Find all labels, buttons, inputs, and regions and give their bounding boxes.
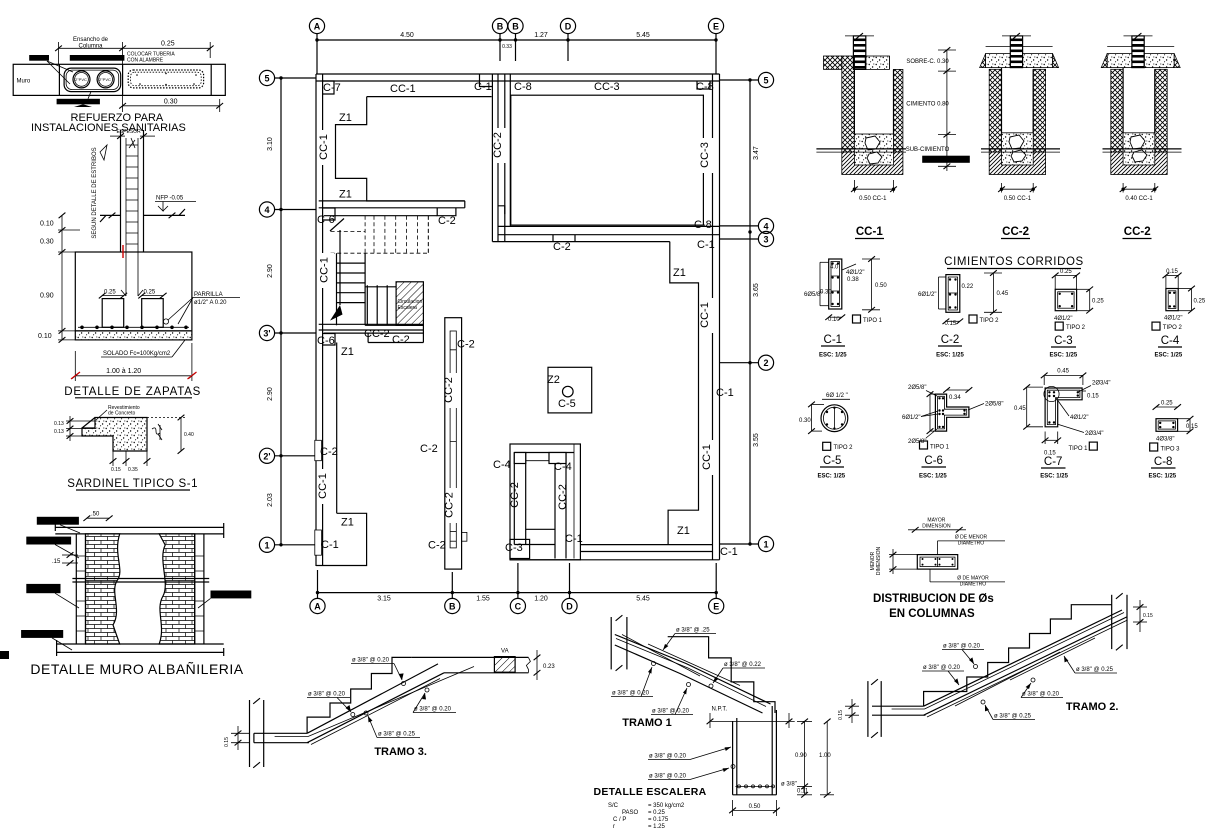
column section C-5 (circular) xyxy=(799,393,853,480)
0.25 dims xyxy=(102,295,124,297)
svg-text:TRAMO 3.: TRAMO 3. xyxy=(374,746,427,758)
svg-text:CON ALAMBRE: CON ALAMBRE xyxy=(127,58,164,64)
svg-text:0.10: 0.10 xyxy=(828,317,840,323)
svg-text:4Ø1/2": 4Ø1/2" xyxy=(1164,315,1182,321)
svg-text:S/C: S/C xyxy=(608,803,619,809)
svg-text:1: 1 xyxy=(264,540,269,550)
left dim 0.15 xyxy=(851,699,853,723)
svg-text:C-6: C-6 xyxy=(317,214,335,226)
slab band descending right xyxy=(615,635,771,705)
svg-text:2.90: 2.90 xyxy=(267,387,274,401)
svg-text:ESC: 1/25: ESC: 1/25 xyxy=(1040,473,1068,479)
detail: muro albanileria xyxy=(21,511,251,677)
svg-text:C-2: C-2 xyxy=(420,443,438,455)
svg-text:Z1: Z1 xyxy=(677,525,690,537)
svg-text:0.45: 0.45 xyxy=(1014,406,1026,412)
svg-text:1.00: 1.00 xyxy=(819,753,831,759)
section middle dim labels xyxy=(906,47,970,171)
svg-text:2.90: 2.90 xyxy=(267,264,274,278)
column rebar extensions into footing xyxy=(121,252,143,296)
svg-text:0.40 CC-1: 0.40 CC-1 xyxy=(1125,196,1153,202)
svg-text:0.25: 0.25 xyxy=(161,41,175,48)
svg-text:C-8: C-8 xyxy=(696,81,714,93)
floor lines xyxy=(100,209,185,222)
svg-text:ø 3/8" @ 0.25: ø 3/8" @ 0.25 xyxy=(1076,667,1114,673)
zapata Z1 bottom-left xyxy=(316,513,367,565)
svg-text:0.50: 0.50 xyxy=(875,283,887,289)
svg-text:CIMIENTO 0.80: CIMIENTO 0.80 xyxy=(906,101,949,107)
svg-text:ø 3/8": ø 3/8" xyxy=(781,782,797,788)
red mark at column base xyxy=(122,245,124,258)
section CC-1 (foundation trench, left) xyxy=(816,33,906,238)
steps xyxy=(668,637,775,713)
svg-text:0.23: 0.23 xyxy=(543,664,555,670)
svg-text:4Ø1/2": 4Ø1/2" xyxy=(846,270,864,276)
svg-text:0.13: 0.13 xyxy=(54,421,64,427)
svg-text:CC-2: CC-2 xyxy=(1124,226,1151,238)
left support xyxy=(610,617,612,669)
top right vertical member xyxy=(1111,595,1113,649)
dims xyxy=(87,517,109,519)
svg-text:= 1.25: = 1.25 xyxy=(648,824,666,830)
svg-text:1.00 à 1.20: 1.00 à 1.20 xyxy=(106,368,141,375)
right dim 0.23 xyxy=(536,650,538,680)
svg-text:.15: .15 xyxy=(52,559,61,565)
svg-text:TIPO 3: TIPO 3 xyxy=(1161,446,1181,452)
right squiggle + dim xyxy=(152,428,160,434)
left dim 0.15 xyxy=(237,726,239,750)
svg-text:0.30: 0.30 xyxy=(40,239,54,246)
svg-text:ESC: 1/25: ESC: 1/25 xyxy=(936,353,964,359)
zapata Z2 with column C-5 xyxy=(548,367,592,413)
svg-text:Escalera: Escalera xyxy=(398,305,418,311)
svg-text:5.45: 5.45 xyxy=(636,596,650,603)
svg-text:0.15: 0.15 xyxy=(1143,613,1153,619)
svg-text:2Ø5/8": 2Ø5/8" xyxy=(908,439,926,445)
svg-text:0.90: 0.90 xyxy=(795,753,807,759)
column C-6 at row 4 left xyxy=(323,208,335,220)
stairs: upper flight dashed treads xyxy=(331,216,429,254)
svg-text:ø 3/8" @ 0.20: ø 3/8" @ 0.20 xyxy=(1022,692,1060,698)
svg-text:Z1: Z1 xyxy=(341,346,354,358)
svg-text:C-5: C-5 xyxy=(823,455,842,467)
stair flight left boundary line xyxy=(336,253,338,325)
svg-text:C-3: C-3 xyxy=(1054,335,1073,347)
svg-text:3.55: 3.55 xyxy=(753,433,760,447)
svg-text:6Ø1/2": 6Ø1/2" xyxy=(902,415,920,421)
stray label mark at sheet edge xyxy=(0,651,9,659)
wall: plan outer right E xyxy=(713,74,720,560)
svg-text:0.22: 0.22 xyxy=(962,284,974,290)
right thin wall xyxy=(194,534,196,644)
svg-text:= 350 kg/cm2: = 350 kg/cm2 xyxy=(648,803,685,809)
rebar dots xyxy=(80,326,188,330)
svg-text:CC-2: CC-2 xyxy=(364,328,390,340)
svg-text:4.0: 4.0 xyxy=(830,265,839,271)
svg-text:0.45: 0.45 xyxy=(997,291,1009,297)
svg-text:C-5: C-5 xyxy=(558,398,576,410)
svg-text:0.50 CC-1: 0.50 CC-1 xyxy=(859,196,887,202)
detail: sardinel tipico S-1 xyxy=(54,405,198,490)
svg-text:3.15: 3.15 xyxy=(377,596,391,603)
svg-text:de Concreto: de Concreto xyxy=(108,411,135,417)
svg-text:C / P: C / P xyxy=(613,817,626,823)
svg-text:CC-2: CC-2 xyxy=(1002,226,1029,238)
svg-text:0.15: 0.15 xyxy=(945,321,957,327)
svg-text:TIPO 2: TIPO 2 xyxy=(834,445,854,451)
svg-text:0.25: 0.25 xyxy=(1161,401,1173,407)
svg-text:0.11: 0.11 xyxy=(797,789,809,795)
stair detail TRAMO 3 xyxy=(224,649,555,768)
svg-text:TRAMO 1: TRAMO 1 xyxy=(622,717,672,729)
svg-text:TIPO 1: TIPO 1 xyxy=(863,318,883,324)
svg-text:0.15: 0.15 xyxy=(111,467,121,473)
svg-text:0.25: 0.25 xyxy=(104,290,116,296)
left support xyxy=(867,681,869,737)
svg-text:C-8: C-8 xyxy=(694,219,712,231)
svg-text:C-2: C-2 xyxy=(320,446,338,458)
svg-text:A: A xyxy=(314,602,321,612)
svg-text:C-4: C-4 xyxy=(1161,335,1180,347)
plan: right grid bubbles 5 4 3 2 1 with dims xyxy=(720,72,774,551)
mayor dimension dim xyxy=(915,529,959,531)
svg-text:SOLADO Fc=100Kg/cm2: SOLADO Fc=100Kg/cm2 xyxy=(103,351,171,357)
svg-text:DIMENSION: DIMENSION xyxy=(876,546,882,575)
svg-text:0.15: 0.15 xyxy=(1166,269,1178,275)
wall: row 4'/3 band under room2 xyxy=(492,206,719,242)
svg-text:VA: VA xyxy=(501,649,509,655)
svg-text:1.55: 1.55 xyxy=(476,596,490,603)
svg-text:ø 3/8" @ 0.22: ø 3/8" @ 0.22 xyxy=(724,662,762,668)
svg-text:C-1: C-1 xyxy=(716,387,734,399)
svg-text:5: 5 xyxy=(264,74,269,84)
svg-text:.50: .50 xyxy=(91,511,100,517)
svg-text:2Ø3/4": 2Ø3/4" xyxy=(1092,380,1110,386)
redacted black labels xyxy=(37,517,79,525)
svg-text:2Ø5/8": 2Ø5/8" xyxy=(985,401,1003,407)
svg-text:ø1/2" A 0.20: ø1/2" A 0.20 xyxy=(194,300,227,306)
svg-text:0.25: 0.25 xyxy=(1060,269,1072,275)
svg-text:3.10: 3.10 xyxy=(267,137,274,151)
svg-text:Z1: Z1 xyxy=(341,517,354,529)
svg-text:r: r xyxy=(613,824,615,830)
svg-text:C-2: C-2 xyxy=(392,334,410,346)
svg-text:CC-1: CC-1 xyxy=(701,444,713,470)
plan: top dimension chain 4.50 / 0.33 / 1.27 / 5.45 xyxy=(315,32,717,74)
svg-text:0.50 CC-1: 0.50 CC-1 xyxy=(1004,196,1032,202)
svg-text:0.25: 0.25 xyxy=(1092,299,1104,305)
plan labels xyxy=(317,81,738,558)
svg-text:0.40: 0.40 xyxy=(184,432,194,438)
svg-text:ø 3/8" @ 0.20: ø 3/8" @ 0.20 xyxy=(308,692,346,698)
column verticals xyxy=(120,130,122,252)
svg-text:2: 2 xyxy=(763,358,768,368)
svg-text:C-8: C-8 xyxy=(514,81,532,93)
svg-text:DETALLE DE ZAPATAS: DETALLE DE ZAPATAS xyxy=(64,386,201,398)
svg-text:1.27: 1.27 xyxy=(534,32,548,39)
wall: row 3' band xyxy=(319,324,424,342)
svg-text:C-1: C-1 xyxy=(824,334,843,346)
svg-text:ø 3/8" @ 0.25: ø 3/8" @ 0.25 xyxy=(994,714,1032,720)
svg-text:C-3: C-3 xyxy=(505,542,523,554)
svg-text:C-6: C-6 xyxy=(924,455,943,467)
svg-text:CC-2: CC-2 xyxy=(492,132,504,158)
wall: plan outer left A xyxy=(316,74,323,566)
svg-text:Z2: Z2 xyxy=(547,374,560,386)
diametro labels xyxy=(937,541,939,555)
svg-text:C-2: C-2 xyxy=(553,241,571,253)
left dim chain xyxy=(61,215,63,340)
svg-text:CC-1: CC-1 xyxy=(856,226,883,238)
svg-text:C-1: C-1 xyxy=(697,239,715,251)
svg-text:DIMENSION: DIMENSION xyxy=(922,523,951,529)
svg-text:N.P.T.: N.P.T. xyxy=(712,707,728,713)
svg-text:0.10: 0.10 xyxy=(38,333,52,340)
column section C-2 xyxy=(918,270,1009,358)
svg-text:ESC: 1/25: ESC: 1/25 xyxy=(817,474,845,480)
svg-text:2': 2' xyxy=(263,451,270,461)
svg-text:2.03: 2.03 xyxy=(267,493,274,507)
top cap xyxy=(55,526,223,528)
column section C-7 (L shape) xyxy=(1014,369,1110,480)
svg-text:E: E xyxy=(713,22,719,32)
svg-text:DIAMETRO: DIAMETRO xyxy=(960,582,987,588)
svg-text:TRAMO 2.: TRAMO 2. xyxy=(1066,701,1119,713)
svg-text:0.15: 0.15 xyxy=(224,737,230,747)
stair detail TRAMO 1 / DETALLE ESCALERA xyxy=(593,615,834,830)
wall: plan outer top xyxy=(316,74,720,81)
room1 footing inner edge with Z1 steps xyxy=(336,97,492,201)
svg-text:ESC: 1/25: ESC: 1/25 xyxy=(1148,473,1176,479)
section CC-2 (middle) xyxy=(980,33,1060,238)
column section C-4 xyxy=(1152,269,1206,359)
column C-7 corner top-left xyxy=(323,81,334,94)
wall: row 4 band (stair top) xyxy=(319,201,465,216)
svg-text:E: E xyxy=(713,602,719,612)
brick columns with wavy free edges xyxy=(86,534,120,644)
svg-text:CC-3: CC-3 xyxy=(699,142,711,168)
svg-text:CC-2: CC-2 xyxy=(509,482,521,508)
svg-text:0.45: 0.45 xyxy=(1057,369,1069,375)
strip footing at axis B (CC-2) xyxy=(445,318,467,569)
wall: B / B' double wall xyxy=(492,74,510,242)
svg-text:NFP -0.05: NFP -0.05 xyxy=(156,196,184,202)
svg-text:0.30: 0.30 xyxy=(164,98,178,105)
svg-text:C-1: C-1 xyxy=(720,546,738,558)
svg-text:0.30: 0.30 xyxy=(820,290,832,296)
svg-text:C-8: C-8 xyxy=(1154,456,1173,468)
right dims 0.90 / 1.00 xyxy=(804,721,806,794)
incline band xyxy=(307,673,444,743)
stirrups xyxy=(126,145,138,244)
svg-text:6Ø1/2": 6Ø1/2" xyxy=(918,292,936,298)
svg-text:0.15: 0.15 xyxy=(838,710,844,720)
svg-text:ESC: 1/25: ESC: 1/25 xyxy=(1050,353,1078,359)
svg-text:TIPO 2: TIPO 2 xyxy=(1163,325,1183,331)
left dims xyxy=(66,420,96,422)
svg-text:C-1: C-1 xyxy=(474,81,492,93)
detail: distribucion de As en columnas xyxy=(870,518,1005,621)
svg-text:6Ø 1/2 ": 6Ø 1/2 " xyxy=(826,393,848,399)
svg-text:C-4: C-4 xyxy=(554,461,572,473)
svg-text:0.33: 0.33 xyxy=(502,44,512,50)
right dim 0.15 xyxy=(1139,600,1141,632)
svg-text:CC-1: CC-1 xyxy=(390,83,416,95)
svg-text:= 0.175: = 0.175 xyxy=(648,817,669,823)
column C-1 top at B xyxy=(480,74,493,87)
svg-text:C-4: C-4 xyxy=(493,459,511,471)
detail: refuerzo para instalaciones sanitarias (beam plan) xyxy=(13,37,225,134)
redacted labels (black bars) with leaders xyxy=(29,55,49,61)
plan: bottom grid bubbles A B C D E with dims 3.15 1.55 1.20 5.45 xyxy=(310,563,724,614)
svg-text:ø 3/8" @ 0.20: ø 3/8" @ 0.20 xyxy=(352,658,390,664)
svg-text:Z1: Z1 xyxy=(339,189,352,201)
svg-text:4Ø1/2": 4Ø1/2" xyxy=(1054,316,1072,322)
svg-text:ESC: 1/25: ESC: 1/25 xyxy=(819,353,847,359)
stair detail TRAMO 2 xyxy=(838,593,1153,738)
svg-text:2"PVC: 2"PVC xyxy=(75,77,87,82)
svg-text:0.50: 0.50 xyxy=(749,804,761,810)
svg-text:3': 3' xyxy=(263,329,270,339)
svg-text:ø 3/8" @ 0.25: ø 3/8" @ 0.25 xyxy=(378,732,416,738)
svg-text:C: C xyxy=(515,602,522,612)
svg-text:CIMIENTOS CORRIDOS: CIMIENTOS CORRIDOS xyxy=(944,256,1084,268)
svg-text:0.13: 0.13 xyxy=(54,429,64,435)
svg-text:2Ø5/8": 2Ø5/8" xyxy=(908,385,926,391)
section CC-2 (right) xyxy=(1101,33,1181,238)
svg-text:C-1: C-1 xyxy=(321,539,339,551)
bottom slab xyxy=(254,732,307,734)
svg-text:0.30: 0.30 xyxy=(799,418,811,424)
svg-text:Muro: Muro xyxy=(17,79,31,85)
svg-text:ø 3/8" @ 0.20: ø 3/8" @ 0.20 xyxy=(923,665,961,671)
svg-text:C-2: C-2 xyxy=(428,540,446,552)
svg-text:SEGUN DETALLE DE ESTRIBOS: SEGUN DETALLE DE ESTRIBOS xyxy=(92,147,98,238)
plan: left grid bubbles 5 4 3' 2' 1 with dims xyxy=(259,70,316,552)
svg-text:C-7: C-7 xyxy=(1044,456,1063,468)
svg-text:Ensancho de: Ensancho de xyxy=(73,37,109,43)
svg-text:Z1: Z1 xyxy=(339,112,352,124)
steps xyxy=(307,657,412,733)
svg-text:ø 3/8" @ .25: ø 3/8" @ .25 xyxy=(676,628,710,634)
svg-text:C-7: C-7 xyxy=(323,82,341,94)
svg-text:1: 1 xyxy=(763,540,768,550)
plan: grid bubbles top row A B B D E xyxy=(309,18,723,33)
svg-text:4: 4 xyxy=(264,205,269,215)
svg-text:1.20: 1.20 xyxy=(534,596,548,603)
svg-text:EN COLUMNAS: EN COLUMNAS xyxy=(889,608,975,620)
elevator box footing C-D rows 1-2 xyxy=(510,444,580,560)
landing xyxy=(412,656,529,658)
svg-text:ø 3/8" @ 0.20: ø 3/8" @ 0.20 xyxy=(652,709,690,715)
VA box xyxy=(494,657,515,673)
left thin wall xyxy=(75,534,77,644)
svg-text:0.15: 0.15 xyxy=(1087,393,1099,399)
svg-text:3.65: 3.65 xyxy=(753,283,760,297)
column C-6 at row 3' left xyxy=(323,334,335,346)
svg-text:TIPO 2: TIPO 2 xyxy=(1066,325,1086,331)
bottom cap xyxy=(57,643,224,645)
svg-text:4.50: 4.50 xyxy=(400,32,414,39)
svg-text:5.45: 5.45 xyxy=(636,32,650,39)
svg-text:ø 3/8" @ 0.20: ø 3/8" @ 0.20 xyxy=(414,707,452,713)
svg-text:C-1: C-1 xyxy=(565,533,583,545)
svg-text:ESC: 1/25: ESC: 1/25 xyxy=(919,474,947,480)
svg-text:0.34: 0.34 xyxy=(949,395,961,401)
svg-text:4Ø1/2": 4Ø1/2" xyxy=(1070,415,1088,421)
svg-text:SUB-CIMIENTO: SUB-CIMIENTO xyxy=(906,147,950,153)
svg-text:CC-2: CC-2 xyxy=(444,492,456,518)
svg-text:3.47: 3.47 xyxy=(753,146,760,160)
svg-text:2Ø3/4": 2Ø3/4" xyxy=(1085,431,1103,437)
column C-8 notch top right xyxy=(697,81,710,89)
svg-text:0.25: 0.25 xyxy=(1194,299,1206,305)
svg-text:ESC: 1/25: ESC: 1/25 xyxy=(1155,353,1183,359)
stairs: direction arrow xyxy=(330,219,344,321)
detail: detalle de zapatas (footing section) xyxy=(38,213,240,398)
svg-text:CC-1: CC-1 xyxy=(699,302,711,328)
left support xyxy=(249,700,251,767)
stairs: lower flight solid treads xyxy=(337,253,424,325)
svg-text:0.35: 0.35 xyxy=(128,467,138,473)
svg-text:D: D xyxy=(565,22,572,32)
svg-text:CC-1: CC-1 xyxy=(318,134,330,160)
title: CIMIENTOS CORRIDOS xyxy=(944,256,1084,269)
svg-text:C-6: C-6 xyxy=(317,335,335,347)
widened column with 2 PVC pipes xyxy=(64,68,121,92)
svg-text:2"PVC: 2"PVC xyxy=(99,77,111,82)
svg-text:0.90: 0.90 xyxy=(40,293,54,300)
room2 footing inner edge xyxy=(511,95,704,225)
column section C-3 xyxy=(1050,269,1105,359)
svg-text:C-2: C-2 xyxy=(457,339,475,351)
svg-text:Z1: Z1 xyxy=(673,267,686,279)
svg-text:C-2: C-2 xyxy=(438,215,456,227)
svg-text:D: D xyxy=(566,602,573,612)
footing inner edge right side with Z1 steps xyxy=(668,242,698,545)
label white backers xyxy=(320,128,717,523)
svg-text:SOBRE-C. 0.30: SOBRE-C. 0.30 xyxy=(906,59,949,65)
svg-text:B: B xyxy=(497,22,504,32)
svg-text:5: 5 xyxy=(763,76,768,86)
detail: column elevation above zapata xyxy=(92,129,196,252)
bottom dim 0.50 xyxy=(732,800,734,816)
svg-text:CC-2: CC-2 xyxy=(443,377,455,403)
svg-text:TIPO 1: TIPO 1 xyxy=(1069,446,1089,452)
bottom slab xyxy=(872,705,924,707)
svg-text:SARDINEL TIPICO S-1: SARDINEL TIPICO S-1 xyxy=(67,478,198,490)
svg-text:C-2: C-2 xyxy=(941,334,960,346)
svg-text:CC-1: CC-1 xyxy=(319,257,331,283)
wall: bottom band row 1 xyxy=(510,545,720,560)
svg-text:PASO: PASO xyxy=(622,810,639,816)
svg-text:0.10: 0.10 xyxy=(40,221,54,228)
footing wall xyxy=(732,721,734,794)
svg-text:B: B xyxy=(512,22,519,32)
svg-text:DETALLE ESCALERA: DETALLE ESCALERA xyxy=(593,786,706,798)
middle beam line xyxy=(72,578,209,580)
svg-text:0.15: 0.15 xyxy=(1186,424,1198,430)
svg-text:CC-2: CC-2 xyxy=(557,484,569,510)
dim line 0.25 xyxy=(59,47,211,49)
stirrup rects xyxy=(102,299,124,328)
svg-text:0.38: 0.38 xyxy=(847,277,859,283)
svg-text:A: A xyxy=(314,22,321,32)
svg-text:DISTRIBUCION DE Øs: DISTRIBUCION DE Øs xyxy=(873,593,994,605)
svg-text:ø 3/8" @ 0.20: ø 3/8" @ 0.20 xyxy=(612,691,650,697)
svg-text:4Ø3/8": 4Ø3/8" xyxy=(1156,437,1174,443)
svg-text:CC-1: CC-1 xyxy=(317,473,329,499)
